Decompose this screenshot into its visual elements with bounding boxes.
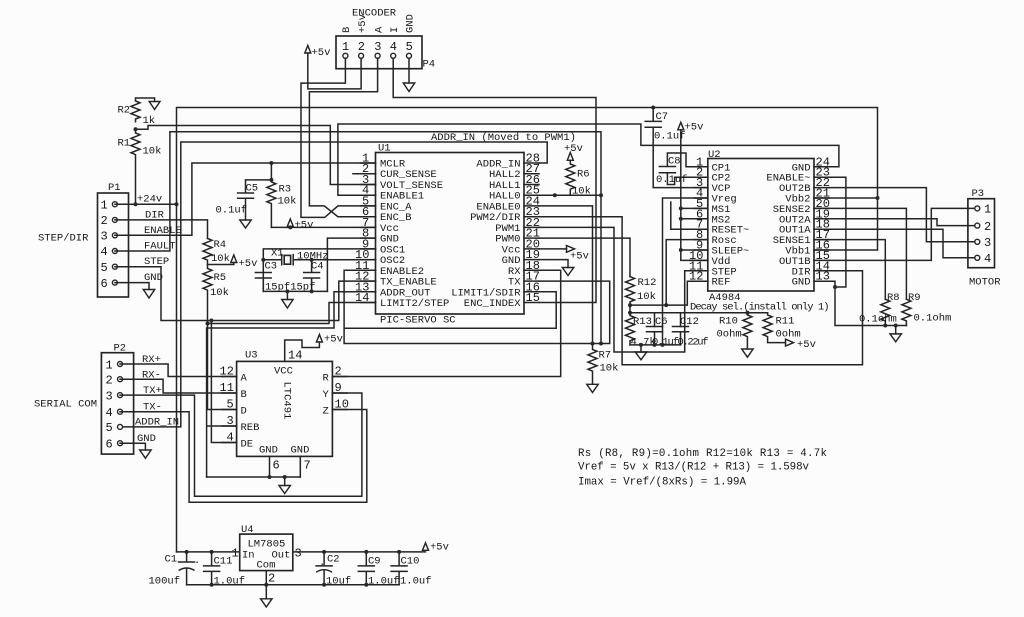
svg-text:Com: Com (257, 560, 276, 572)
svg-text:0.1uf: 0.1uf (656, 174, 688, 186)
U3 GND pins 6,7 (207, 456, 311, 493)
capacitor C7 (645, 108, 708, 188)
wire R1/R2 node to U1 VOLT_SENSE pin 3 (136, 126, 376, 185)
wire U2 SENSE1 pin17 to R8 (814, 240, 885, 300)
svg-text:100uf: 100uf (149, 576, 181, 588)
wire P1 pin6 GND (115, 283, 149, 290)
svg-text:C5: C5 (246, 183, 259, 195)
svg-text:A: A (373, 26, 385, 33)
svg-text:R7: R7 (599, 350, 612, 362)
svg-text:U3: U3 (245, 350, 258, 362)
capacitor C2 10uf (316, 552, 351, 588)
+5v near C7 feeding U2 Vdd (678, 122, 704, 134)
wire +5v vertical to U2 Vdd/MS1/MS2/SLEEP (681, 130, 708, 261)
svg-text:Y: Y (323, 389, 330, 401)
svg-text:4: 4 (390, 40, 397, 54)
svg-text:0.22uf: 0.22uf (678, 337, 709, 349)
svg-text:B: B (341, 27, 353, 33)
wire encoder I to U1 ENC_INDEX pin 15 (393, 58, 596, 302)
wire U2 GND pin13 to R8/R9 ground (814, 281, 906, 325)
wire decay cluster ground rail (630, 345, 681, 352)
svg-text:7: 7 (304, 459, 311, 473)
svg-text:0ohm: 0ohm (717, 329, 742, 341)
wire P2 RX+ to U3 A (120, 364, 237, 377)
wire U1 ENABLE2 pin11 / R7 rail / U1 TX pin17 (344, 270, 610, 343)
connector P1 (98, 182, 182, 297)
svg-text:+5v: +5v (324, 334, 343, 346)
+5v at R4/R5 node (208, 255, 258, 270)
resistor R10 (717, 313, 754, 358)
svg-text:0.1ohm: 0.1ohm (859, 314, 897, 326)
svg-text:REB: REB (241, 422, 260, 434)
wire P2 TX- to U3 Z (120, 410, 367, 503)
svg-text:1: 1 (106, 358, 113, 372)
svg-text:P4: P4 (423, 59, 436, 71)
resistor R11 with +5v (763, 313, 816, 351)
svg-text:10k: 10k (278, 196, 297, 208)
svg-text:10k: 10k (211, 253, 230, 265)
ground below R8/R9 (890, 326, 901, 342)
svg-text:10: 10 (335, 398, 349, 412)
svg-text:C10: C10 (401, 556, 420, 568)
svg-text:PIC-SERVO SC: PIC-SERVO SC (380, 315, 456, 327)
svg-text:GND: GND (291, 445, 310, 457)
svg-text:B: B (241, 389, 247, 401)
crystal X1 10MHz (263, 248, 375, 265)
wire U1 TX_ENABLE pin12 to DIR/R5 line (211, 281, 375, 442)
capacitor C3 (255, 261, 277, 292)
svg-text:14: 14 (288, 349, 302, 363)
svg-text:10uf: 10uf (326, 576, 351, 588)
svg-text:LIMIT2/STEP: LIMIT2/STEP (380, 298, 449, 310)
wire crystal ground rail (263, 291, 327, 299)
wire U2 Vreg pin4 to ground rail (663, 198, 708, 345)
svg-text:5: 5 (227, 398, 234, 412)
capacitor C10 (391, 552, 431, 588)
capacitor C8 between U2 CP1/CP2 (656, 153, 708, 186)
resistor R8 (859, 292, 900, 326)
svg-text:+5v: +5v (797, 339, 816, 351)
wire R12 bottom to U2 REF pin12 (630, 281, 708, 305)
svg-text:A: A (241, 372, 248, 384)
wire P2 TX+ to U3 Y (120, 393, 362, 496)
wire decay select to R10/R11 (681, 312, 768, 314)
resistor R13 (626, 313, 656, 349)
svg-text:D: D (241, 405, 247, 417)
svg-text:C6: C6 (655, 316, 668, 328)
svg-text:6: 6 (106, 438, 113, 452)
svg-text:4: 4 (227, 431, 234, 445)
wire P2 pin6 GND (120, 443, 151, 458)
svg-text:C3: C3 (265, 261, 278, 273)
svg-text:R1: R1 (118, 138, 131, 150)
wire U1 OSC1 pin9 loop to C3 (263, 249, 375, 292)
svg-text:1: 1 (342, 40, 349, 54)
svg-text:3: 3 (227, 414, 234, 428)
wire +5v/R3 to U1 Vcc pin 7 (271, 226, 375, 228)
svg-text:DE: DE (241, 438, 254, 450)
svg-text:3: 3 (101, 230, 108, 244)
svg-text:R: R (323, 372, 330, 384)
resistor R1 (118, 129, 162, 204)
ground at P1 pin 6 (143, 290, 154, 299)
svg-text:10k: 10k (143, 146, 162, 158)
capacitor C9 (358, 552, 399, 588)
wire U1 GND pin8 to crystal ground rail (327, 238, 375, 291)
svg-text:GND: GND (405, 14, 417, 33)
svg-text:3: 3 (295, 547, 302, 561)
+5v at U4 output rail (423, 542, 449, 554)
svg-text:+5v: +5v (312, 47, 331, 59)
connector P4 ENCODER (336, 8, 435, 71)
U1 left pin names (380, 159, 449, 311)
svg-text:3: 3 (374, 40, 381, 54)
U1 left pin stubs and numbers (353, 152, 376, 306)
svg-text:1: 1 (232, 547, 239, 561)
capacitor C12 (673, 316, 709, 349)
svg-text:R9: R9 (908, 292, 921, 304)
wire P1 FAULT to U1 HALL0 pin 25 (115, 132, 601, 344)
wire U1 LIMIT1/SDIR pin16 (345, 292, 556, 329)
wire +24v vertical and top rail to U2 Vbb2/Vbb1 (177, 108, 878, 552)
wire encoder B to U1 ENC_A (crossover) (301, 58, 376, 217)
U4 supply rails (177, 552, 426, 585)
capacitor C5 (216, 180, 272, 228)
svg-text:11: 11 (220, 381, 234, 395)
svg-text:VCC: VCC (274, 366, 293, 378)
svg-text:0.1uf: 0.1uf (216, 205, 248, 217)
svg-text:+5v: +5v (239, 258, 258, 270)
wire U2 RESET pin7 (671, 202, 708, 229)
wire U1 ADDR_OUT pin13 to U3 REB and GND (207, 292, 376, 477)
wire U1 PWM2/DIR pin23 to U2 DIR pin14 (539, 217, 863, 365)
svg-text:R12: R12 (638, 277, 657, 289)
svg-text:GND: GND (792, 277, 811, 289)
svg-text:.: . (194, 555, 200, 567)
svg-text:9: 9 (335, 381, 342, 395)
svg-text:In: In (242, 550, 255, 562)
resistor R4 (203, 239, 230, 266)
IC U2 A4984 (690, 149, 830, 314)
IC U1 PIC-SERVO SC (376, 143, 525, 327)
+5v supply at encoder pin 2 (305, 46, 331, 60)
svg-text:15: 15 (526, 291, 540, 305)
svg-text:2: 2 (358, 40, 365, 54)
svg-text:1.0uf: 1.0uf (368, 576, 400, 588)
svg-text:10k: 10k (210, 287, 229, 299)
svg-text:1: 1 (984, 203, 991, 217)
U3 right pin names and numbers (323, 365, 349, 418)
svg-text:12: 12 (220, 365, 234, 379)
svg-text:4: 4 (106, 406, 113, 420)
svg-text:3: 3 (984, 236, 991, 250)
wire U2 OUT2B pin22 to P3 pin3 (829, 188, 975, 242)
svg-text:Vref = 5v x R13/(R12 + R13) =: Vref = 5v x R13/(R12 + R13) = 1.598v (578, 462, 810, 474)
svg-text:I: I (389, 27, 401, 33)
svg-text:+5v: +5v (564, 143, 583, 155)
resistor R5 (203, 265, 237, 410)
svg-text:2: 2 (268, 572, 275, 586)
svg-text:R6: R6 (577, 169, 590, 181)
svg-text:+5v: +5v (685, 122, 704, 134)
+5v arrow at U1 Vcc pin 20 (539, 246, 589, 263)
wire U1 ENABLE0 pin24 down to R7 rail (539, 206, 593, 344)
svg-text:2: 2 (335, 365, 342, 379)
connector P3 MOTOR (968, 188, 1001, 289)
wire U1 PWM0 pin21 to R12 (539, 238, 630, 277)
resistor R6 pullup (555, 143, 591, 198)
svg-text:Imax = Vref/(8xRs) = 1.99A: Imax = Vref/(8xRs) = 1.99A (578, 477, 747, 489)
svg-text:SERIAL COM: SERIAL COM (34, 399, 97, 411)
svg-text:1: 1 (101, 199, 108, 213)
capacitor C6 (647, 316, 680, 349)
capacitor C1 100uf (149, 552, 201, 588)
resistor R2 (118, 98, 161, 127)
resistor R3 (267, 163, 297, 227)
wire U1 PWM1 pin22 to U2 STEP pin11 (539, 227, 708, 352)
ground below decay cluster (635, 352, 646, 360)
U2 right pin names (766, 162, 811, 288)
resistor R7 (587, 344, 619, 393)
svg-text:C2: C2 (327, 554, 340, 566)
capacitor C11 (204, 552, 245, 588)
U2 left pin names (712, 162, 750, 288)
svg-text:ADDR_IN: ADDR_IN (135, 417, 179, 429)
svg-text:5: 5 (106, 421, 113, 435)
svg-text:10k: 10k (637, 291, 656, 303)
svg-text:+5v: +5v (295, 220, 314, 232)
svg-text:R3: R3 (279, 184, 292, 196)
wire P2 ADDR_IN to U1 pin 28 (120, 142, 547, 427)
svg-text:GND: GND (259, 445, 278, 457)
svg-text:+5v: +5v (430, 542, 449, 554)
wire P2 RX- to U3 B (120, 379, 237, 393)
wire U2 OUT2A pin19 to P3 pin2 (829, 219, 975, 226)
U1 right pin names (451, 159, 521, 311)
svg-text:0.1ohm: 0.1ohm (914, 313, 952, 325)
IC U3 LTC491 (237, 350, 333, 457)
svg-text:6: 6 (273, 459, 280, 473)
capacitor C4 (304, 260, 324, 292)
svg-text:C1: C1 (165, 554, 178, 566)
wire P1 DIR via R4,R5 to U3 D (115, 220, 208, 239)
wire U2 SENSE2 pin20 to R9 (814, 208, 906, 299)
junction R2 bottom (134, 127, 138, 131)
wire P1 ENABLE to U1 MCLR pin 1 (115, 163, 376, 235)
svg-text:LTC491: LTC491 (281, 382, 293, 420)
wire U1 ENABLE1 pin4 to U2 GND pin24 (338, 124, 839, 195)
ground below crystal (282, 300, 293, 309)
wire U2 OUT1A pin18 to P3 pin4 (829, 229, 975, 258)
node +24v: P1 pin1 to rail (115, 203, 177, 205)
svg-text:R11: R11 (776, 316, 795, 328)
svg-text:4: 4 (101, 245, 108, 259)
svg-text:+5v: +5v (357, 14, 369, 33)
svg-text:R4: R4 (214, 239, 227, 251)
wire U2 Rosc pin8 to REF node (666, 240, 708, 306)
svg-text:2: 2 (101, 214, 108, 228)
U2 right pin stubs and numbers (814, 155, 830, 283)
svg-text:STEP/DIR: STEP/DIR (38, 233, 89, 245)
svg-text:.: . (319, 557, 325, 569)
svg-text:3: 3 (106, 389, 113, 403)
svg-text:1.0uf: 1.0uf (214, 576, 246, 588)
U1 right pin stubs and numbers (524, 152, 540, 306)
svg-text:R10: R10 (719, 316, 738, 328)
svg-text:MOTOR: MOTOR (969, 277, 1001, 289)
svg-text:2: 2 (984, 220, 991, 234)
wire R13/C6/C12 top node (630, 305, 681, 326)
junction MCLR node (269, 161, 273, 165)
svg-text:5: 5 (101, 261, 108, 275)
wire +5v to encoder pin 2 (308, 53, 361, 89)
svg-text:Decay sel.(install only 1): Decay sel.(install only 1) (690, 302, 830, 314)
formulas text block (578, 448, 827, 489)
IC U4 LM7805 (232, 524, 302, 586)
svg-text:Z: Z (323, 405, 329, 417)
ground at U1 GND pin 19 (539, 260, 574, 276)
svg-text:6: 6 (101, 277, 108, 291)
resistor R9 (902, 292, 951, 326)
svg-text:R8: R8 (887, 292, 900, 304)
svg-text:4: 4 (984, 252, 991, 266)
svg-text:12: 12 (689, 270, 703, 284)
svg-text:2: 2 (106, 374, 113, 388)
svg-text:C11: C11 (214, 556, 233, 568)
resistor R12 (626, 277, 657, 306)
wire encoder A to U1 ENC_B (crossover) (309, 58, 377, 216)
U3 VCC pin 14 with +5v (285, 334, 343, 363)
svg-text:10k: 10k (600, 363, 619, 375)
U2 left pin stubs and numbers (689, 155, 708, 283)
U3 left pin names and numbers (220, 365, 260, 451)
svg-text:0.1uf: 0.1uf (652, 337, 679, 349)
wire P1 STEP to DE bus (115, 267, 211, 321)
connector P2 (101, 343, 179, 455)
svg-text:C8: C8 (668, 156, 681, 168)
svg-text:1.0uf: 1.0uf (400, 576, 432, 588)
svg-text:X1: X1 (271, 248, 284, 260)
svg-text:REF: REF (712, 277, 731, 289)
wire U2 OUT1B pin15 to P3 pin1 (829, 208, 975, 260)
svg-text:14: 14 (355, 291, 369, 305)
svg-text:+5v: +5v (570, 251, 589, 263)
wire U1 RX pin18 to U3 R (332, 270, 560, 376)
svg-text:ENC_INDEX: ENC_INDEX (464, 298, 521, 310)
wire U1 LIMIT2/STEP pin14 to U3 DE (208, 303, 376, 324)
svg-text:10k: 10k (572, 186, 591, 198)
svg-text:C7: C7 (656, 111, 669, 123)
+5v at U1 Vcc pin 7 (287, 219, 313, 232)
ground below U4 Com (261, 585, 272, 607)
svg-text:Rs (R8, R9)=0.1ohm R12=10k R: Rs (R8, R9)=0.1ohm R12=10k R13 = 4.7k (578, 448, 827, 460)
svg-text:R2: R2 (118, 105, 131, 117)
svg-text:C4: C4 (311, 261, 324, 273)
svg-text:R5: R5 (214, 272, 227, 284)
svg-text:5: 5 (406, 40, 413, 54)
svg-text:C12: C12 (680, 316, 699, 328)
wire U2 ENABLE~ pin23 to GND net (814, 177, 846, 287)
ground below P4 pin 5 (403, 58, 414, 91)
svg-text:C9: C9 (368, 556, 381, 568)
